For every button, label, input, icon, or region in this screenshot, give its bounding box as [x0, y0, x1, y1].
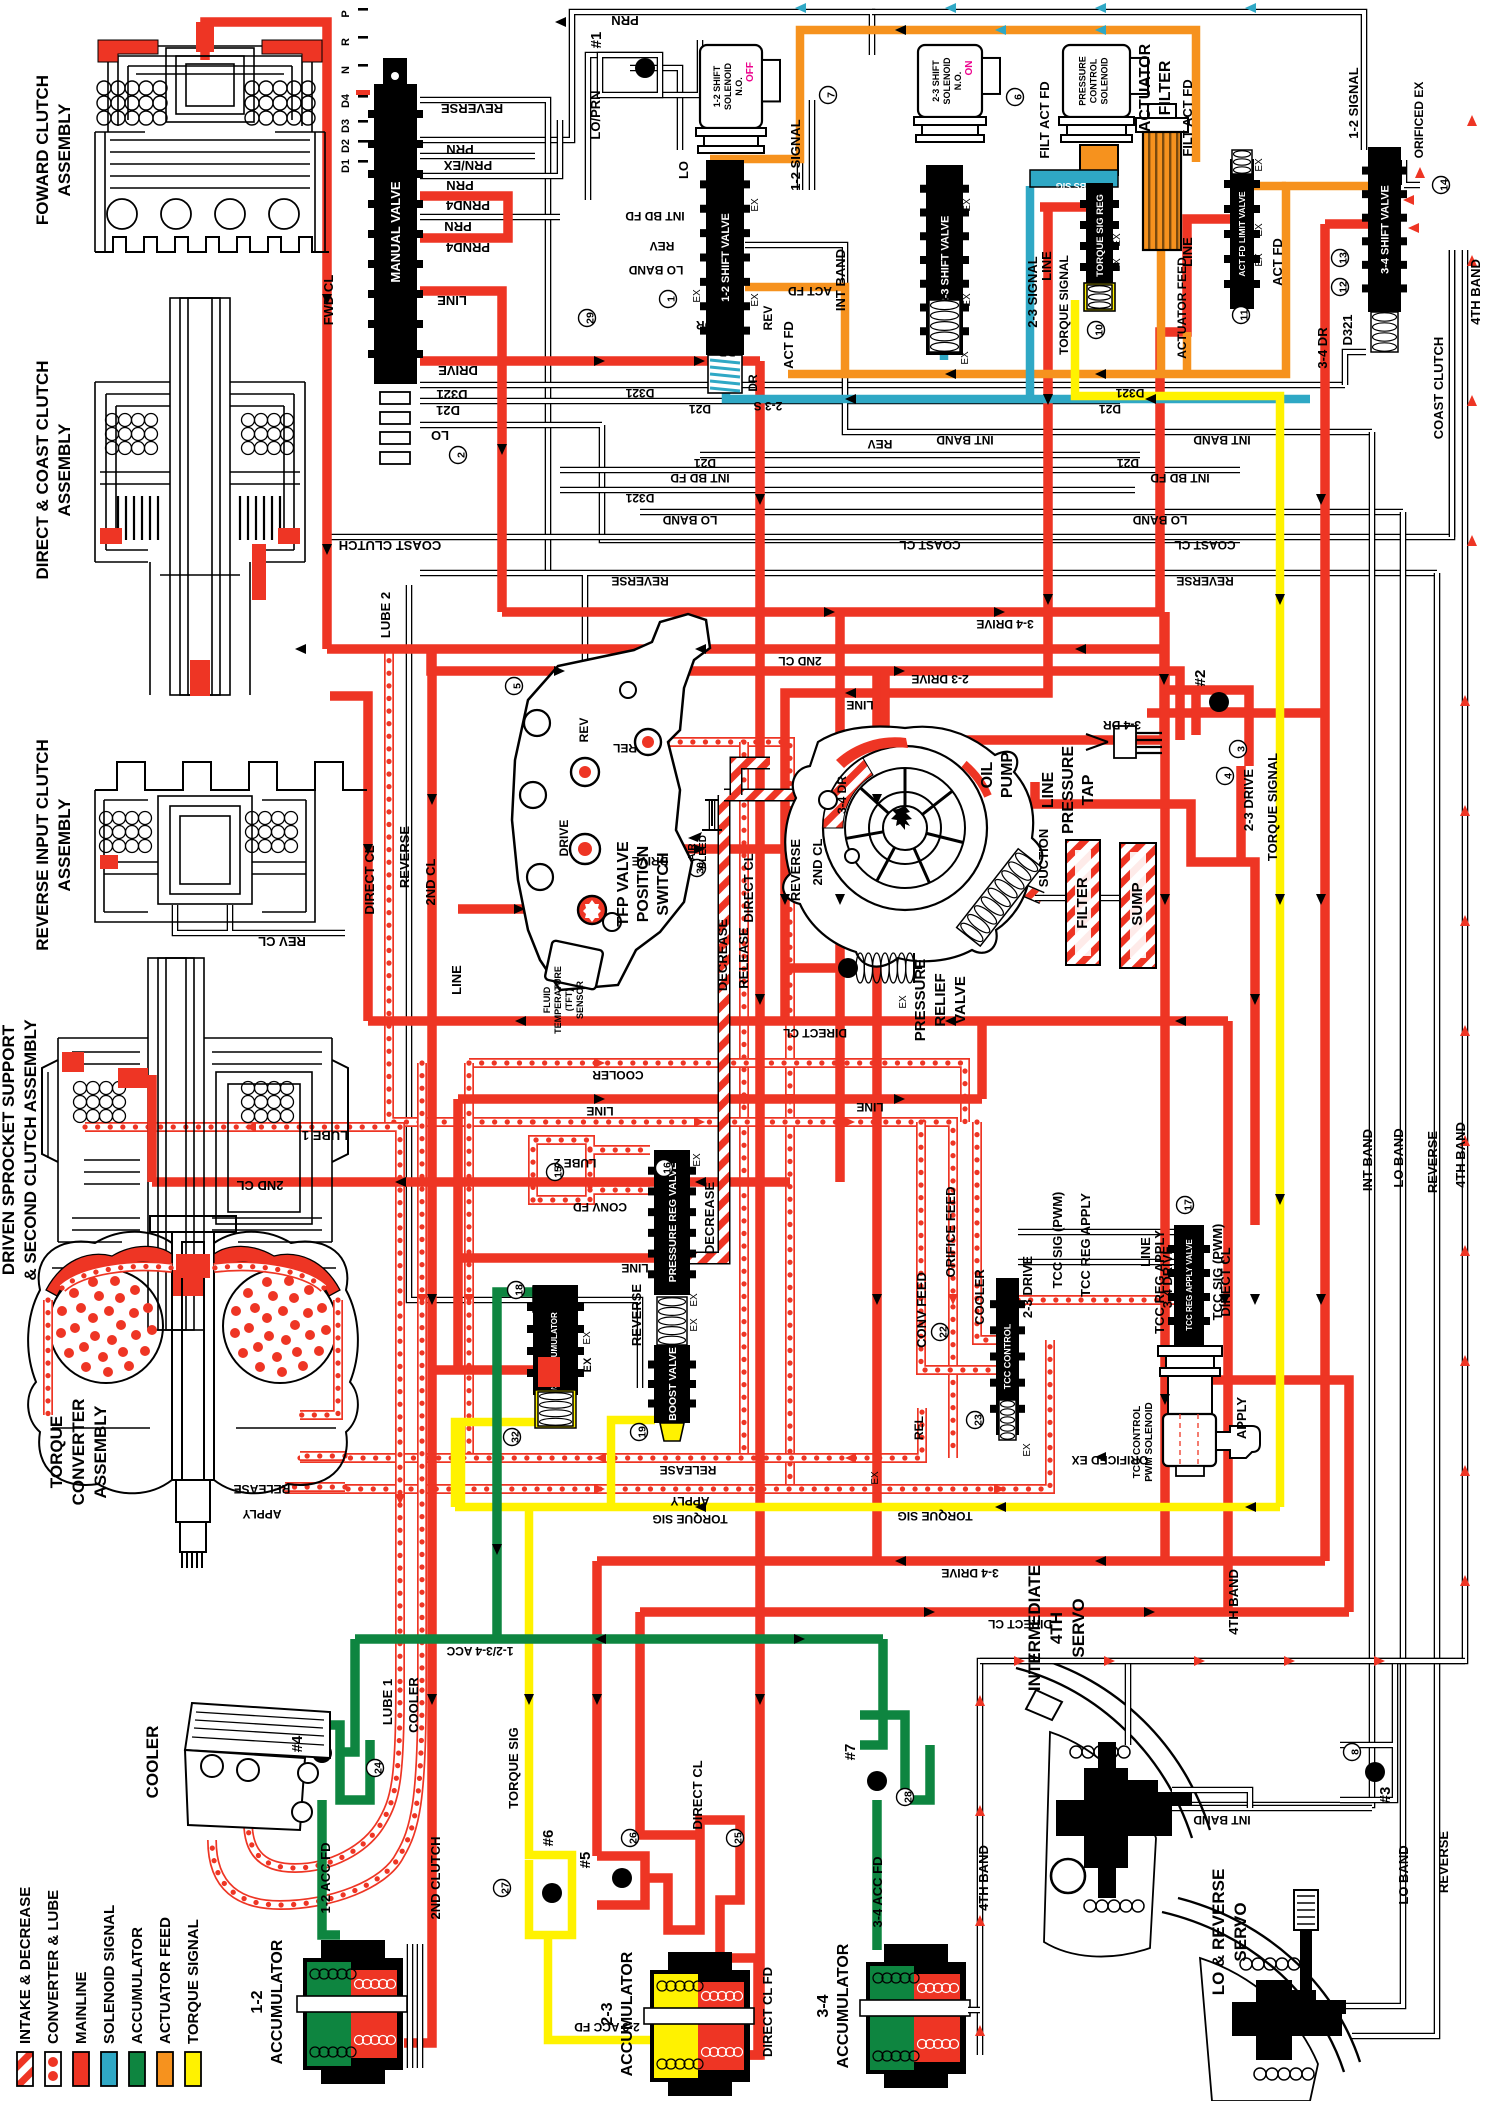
svg-text:3-4 DR: 3-4 DR	[1103, 718, 1141, 732]
wire INT BD FD channel	[560, 467, 1240, 474]
svg-text:16: 16	[662, 1162, 674, 1174]
wire cooler S loop outer	[212, 1690, 422, 1905]
checkball #5	[612, 1868, 632, 1888]
svg-text:RELEASE: RELEASE	[234, 1482, 291, 1496]
svg-text:1-2: 1-2	[249, 1990, 266, 2013]
TFP REL port	[635, 729, 661, 755]
svg-text:TFP VALVE: TFP VALVE	[615, 841, 632, 927]
wire LO long channel	[420, 425, 1240, 540]
wire 1-2 signal top channel	[872, 12, 1364, 150]
wire 3-4 shift valve feed	[1325, 219, 1368, 229]
wire accumulator green bus	[355, 1634, 883, 1644]
cooler assembly	[185, 1703, 330, 1830]
wire LO/PRN vertical channel	[588, 55, 640, 200]
wire D21 channel	[420, 398, 1120, 405]
svg-text:REV: REV	[577, 718, 591, 743]
wire orange 1-2 valve branch	[745, 287, 845, 374]
svg-text:DR: DR	[718, 345, 736, 359]
svg-text:2ND CLUTCH: 2ND CLUTCH	[428, 1836, 443, 1919]
svg-text:D21: D21	[1099, 402, 1121, 416]
svg-text:SUCTION: SUCTION	[1036, 829, 1051, 888]
wire 2-3 valve bottom blue	[940, 330, 949, 360]
svg-text:DIRECT CL: DIRECT CL	[1218, 1247, 1233, 1316]
wire INT BAND servo channel	[1150, 1805, 1372, 1812]
wire suction to filter hatched	[1000, 880, 1042, 898]
svg-text:2-3 DRIVE: 2-3 DRIVE	[911, 672, 968, 686]
wire DIRECT CL bottom bus	[640, 1607, 1349, 1617]
line pressure tap bolt	[1086, 726, 1162, 758]
intermediate 4th servo	[1016, 1656, 1210, 1957]
node circled 19	[631, 1424, 649, 1441]
wire dotted top bus to TCC loop	[533, 1122, 953, 1458]
svg-text:D2: D2	[340, 139, 352, 153]
svg-text:TORQUE SIGNAL: TORQUE SIGNAL	[1265, 753, 1280, 861]
checkball #7	[867, 1771, 887, 1791]
svg-text:D4: D4	[340, 93, 352, 108]
svg-text:RELEASE: RELEASE	[736, 927, 751, 989]
svg-text:DR: DR	[746, 374, 760, 392]
svg-text:2ND CL: 2ND CL	[778, 654, 821, 668]
node circled 25	[727, 1830, 745, 1847]
svg-text:FILT ACT FD: FILT ACT FD	[1180, 79, 1195, 156]
svg-text:INTAKE & DECREASE: INTAKE & DECREASE	[17, 1887, 34, 2044]
svg-text:COOLER: COOLER	[592, 1068, 644, 1082]
svg-text:LINE: LINE	[1040, 771, 1057, 808]
svg-text:7: 7	[826, 92, 838, 98]
wire #6 yellow drop	[529, 1507, 660, 2040]
svg-text:2-3 ACC FD: 2-3 ACC FD	[574, 2020, 640, 2034]
svg-text:2-3 S: 2-3 S	[754, 399, 783, 413]
svg-text:EX: EX	[962, 198, 973, 212]
svg-text:6: 6	[1013, 94, 1025, 100]
right edge red arrows top	[1467, 115, 1477, 126]
svg-text:5: 5	[512, 683, 524, 689]
checkball #4	[312, 1743, 332, 1763]
wire TC apply dotted stub	[300, 1451, 345, 1461]
TFP REV port	[571, 758, 599, 786]
svg-text:D21: D21	[436, 403, 460, 418]
wire #7 green cluster	[860, 1639, 930, 1950]
wire orange act fd limit valve	[1253, 182, 1286, 191]
svg-text:PRND4: PRND4	[445, 240, 490, 255]
wire 1-2/3-4 accumulator yellow drain	[457, 1422, 466, 1507]
wire LINE bus upper	[785, 207, 1048, 1021]
node circled 17	[1177, 1197, 1195, 1214]
wire RELEASE dotted bus	[300, 1408, 922, 1458]
svg-text:DIRECT & COAST CLUTCH: DIRECT & COAST CLUTCH	[33, 360, 52, 579]
svg-text:PRN/EX: PRN/EX	[443, 158, 492, 173]
svg-text:ACT FD LIMIT VALVE: ACT FD LIMIT VALVE	[1237, 191, 1247, 276]
oil pump red accents	[836, 737, 908, 768]
svg-text:PRESSURE: PRESSURE	[1077, 56, 1087, 106]
wire pump to oil hatched elbow	[736, 763, 770, 795]
svg-text:D21: D21	[694, 456, 716, 470]
solenoid pressure control	[1063, 45, 1130, 117]
svg-text:INT BAND: INT BAND	[1193, 433, 1251, 447]
svg-text:TAP: TAP	[1080, 774, 1097, 805]
wire DRIVE line from TFP	[579, 844, 805, 854]
svg-text:23: 23	[973, 1414, 985, 1426]
legend actuator feed	[157, 2052, 173, 2086]
svg-text:14: 14	[1439, 179, 1451, 191]
oil pump assembly	[783, 727, 1042, 967]
svg-text:LINE: LINE	[586, 1104, 613, 1118]
wire FWD CL red line	[205, 22, 327, 649]
wire main vertical x760	[748, 361, 760, 2055]
svg-text:D321: D321	[625, 491, 654, 505]
wire TC release dotted stub	[285, 1482, 345, 1492]
svg-text:4TH BAND: 4TH BAND	[1468, 259, 1483, 325]
svg-text:ASSEMBLY: ASSEMBLY	[55, 103, 74, 197]
svg-text:BLEED: BLEED	[698, 835, 709, 869]
checkball #1	[600, 55, 660, 95]
wire orange filter down	[1157, 250, 1166, 374]
svg-text:2: 2	[456, 452, 468, 458]
svg-text:ACTUATOR FEED: ACTUATOR FEED	[157, 1917, 174, 2044]
svg-text:CONVERTER & LUBE: CONVERTER & LUBE	[45, 1890, 62, 2044]
wire act fd limit line feed	[1160, 219, 1236, 612]
wire orificed ex channel	[1404, 160, 1420, 185]
wire 2ND CL bus	[327, 644, 1164, 654]
svg-text:SERVO: SERVO	[1069, 1598, 1088, 1657]
svg-text:EX: EX	[750, 198, 761, 212]
svg-text:1-2 ACC FD: 1-2 ACC FD	[318, 1842, 333, 1913]
valve 1-2 shift	[706, 160, 744, 355]
accumulator 1-2	[303, 1940, 403, 2084]
torque converter red shell	[46, 1246, 172, 1296]
node circled 32	[504, 1429, 522, 1446]
wire orange top loop	[710, 30, 1196, 162]
svg-text:ORIFICED EX: ORIFICED EX	[1072, 1453, 1149, 1467]
svg-text:TCC CONTROL: TCC CONTROL	[1003, 1323, 1013, 1389]
svg-text:25: 25	[733, 1832, 745, 1844]
svg-text:EX: EX	[898, 995, 909, 1009]
direct clutch red accents	[100, 528, 122, 544]
svg-text:3-4: 3-4	[815, 1994, 832, 2017]
wire APPLY dotted bus	[285, 1340, 1050, 1489]
air bleed symbol	[702, 800, 722, 830]
TFT sensor body	[544, 940, 603, 990]
wire COOLER dotted upper bus	[469, 1063, 965, 1122]
svg-text:8: 8	[1350, 1749, 1362, 1755]
valve 1-2/3-4 accumulator	[533, 1286, 556, 1312]
svg-text:REV: REV	[868, 437, 893, 451]
svg-text:CONV FD: CONV FD	[573, 1200, 627, 1214]
filter hatched block	[1066, 840, 1100, 965]
node circled 4	[1217, 768, 1235, 785]
svg-text:TORQUE SIG: TORQUE SIG	[652, 1512, 727, 1526]
torque converter dotted channels	[62, 1266, 172, 1288]
node circled 29	[579, 310, 597, 327]
svg-text:3-4 SHIFT VALVE: 3-4 SHIFT VALVE	[1379, 185, 1391, 274]
wire suction channel filter-sump	[1035, 895, 1135, 902]
svg-text:LINE: LINE	[846, 698, 873, 712]
svg-text:1: 1	[666, 296, 678, 302]
valve boost	[654, 1345, 690, 1423]
torque converter lube dots	[90, 1331, 100, 1341]
svg-text:TORQUE SIG: TORQUE SIG	[897, 1509, 972, 1523]
svg-text:17: 17	[1183, 1199, 1195, 1211]
wire DECREASE hatched vertical	[660, 795, 724, 1258]
wire DIRECT CL right vertical	[1223, 1021, 1233, 1612]
node circled 14	[1433, 177, 1451, 194]
checkball #6	[542, 1883, 562, 1903]
wire DIRECT CL bus	[368, 1016, 1228, 1026]
wire pump inlet red	[805, 800, 840, 849]
wire RELEASE dotted vertical	[739, 742, 749, 1458]
svg-text:PWM SOLENOID: PWM SOLENOID	[1144, 1402, 1155, 1481]
svg-text:LO BAND: LO BAND	[1391, 1128, 1406, 1187]
svg-text:EX: EX	[692, 289, 703, 303]
svg-text:3-4 DRIVE: 3-4 DRIVE	[1160, 1246, 1175, 1308]
svg-text:3: 3	[1236, 746, 1248, 752]
svg-text:APPLY: APPLY	[243, 1507, 282, 1521]
wire direct cl drop	[640, 1612, 700, 1835]
node circled 6	[1007, 89, 1025, 106]
svg-text:2-3 DRIVE: 2-3 DRIVE	[1020, 1256, 1035, 1318]
svg-text:OFF: OFF	[745, 62, 756, 82]
svg-text:INT BAND: INT BAND	[1193, 1813, 1251, 1827]
wire suction hatched from pump	[724, 789, 815, 802]
svg-text:& SECOND CLUTCH ASSEMBLY: & SECOND CLUTCH ASSEMBLY	[21, 1019, 40, 1281]
svg-text:29: 29	[585, 312, 597, 324]
wire orange act fd limit top	[1183, 332, 1192, 374]
wire air bleed channel	[709, 800, 716, 830]
wire REVERSE vertical to boost valve	[409, 585, 640, 1388]
wire 2-3 S bus	[726, 355, 1310, 399]
svg-text:10: 10	[1094, 324, 1106, 336]
valve TCC control	[996, 1278, 1019, 1435]
wire PRND4 jog	[420, 196, 508, 238]
wire REVERSE right vertical	[1434, 573, 1441, 1980]
node circled 28	[897, 1789, 915, 1806]
svg-text:EX: EX	[1112, 233, 1123, 247]
wire 3-4 DR long vertical	[1320, 224, 1330, 1561]
svg-text:COAST CL: COAST CL	[899, 538, 960, 552]
svg-text:LUBE 1: LUBE 1	[302, 1128, 348, 1143]
svg-text:D1: D1	[340, 159, 352, 173]
svg-text:TORQUE SIG REG: TORQUE SIG REG	[1095, 194, 1106, 277]
wire PRN/EX port channel	[420, 153, 535, 160]
svg-text:CONVERTER: CONVERTER	[69, 1399, 88, 1506]
svg-text:FLUID: FLUID	[542, 986, 552, 1013]
wire pump outlet path	[1035, 782, 1255, 1225]
sump hatched block	[1120, 843, 1156, 968]
svg-text:REL: REL	[912, 1416, 926, 1440]
svg-text:4: 4	[1223, 773, 1235, 779]
svg-text:INT BAND: INT BAND	[1360, 1129, 1375, 1191]
svg-text:REVERSE: REVERSE	[629, 1284, 644, 1346]
svg-text:2-3 DRIVE: 2-3 DRIVE	[1241, 769, 1256, 831]
legend accumulator	[129, 2052, 145, 2086]
svg-text:DIRECT CL: DIRECT CL	[690, 1760, 705, 1829]
svg-text:13: 13	[1338, 252, 1350, 264]
solenoid 1-2 shift	[700, 45, 762, 128]
svg-text:1-2 SHIFT VALVE: 1-2 SHIFT VALVE	[720, 213, 732, 302]
svg-text:12: 12	[1338, 281, 1350, 293]
node circled 15	[547, 1164, 565, 1181]
svg-text:INT BAND: INT BAND	[833, 249, 848, 311]
svg-text:LO BAND: LO BAND	[1396, 1845, 1411, 1904]
svg-text:AIR: AIR	[687, 843, 698, 861]
svg-text:19: 19	[637, 1426, 649, 1438]
wire 3-4 DR to shift valve	[1147, 708, 1325, 718]
svg-text:DIRECT CL FD: DIRECT CL FD	[760, 1967, 775, 2057]
svg-text:VALVE: VALVE	[952, 976, 969, 1024]
4th band red arrows	[1460, 695, 1470, 706]
actuator filter component	[1136, 118, 1188, 132]
svg-text:SOLENOID: SOLENOID	[723, 63, 733, 111]
svg-text:ACT FD: ACT FD	[1270, 238, 1285, 286]
svg-text:CONV FEED: CONV FEED	[914, 1272, 929, 1348]
svg-text:1-2/3-4 ACC: 1-2/3-4 ACC	[446, 1644, 513, 1658]
driven sprocket support and second clutch assembly	[42, 958, 348, 1330]
wire TFP REV channel	[582, 575, 589, 695]
wire line pressure tap line	[885, 671, 1164, 740]
svg-text:SOLENOID: SOLENOID	[1100, 57, 1110, 105]
wire TCC reg apply to direct cl bus	[1204, 1380, 1349, 1612]
svg-text:#6: #6	[540, 1830, 557, 1847]
legend converter and lube	[45, 2052, 61, 2086]
svg-text:18: 18	[514, 1284, 526, 1296]
svg-text:PRN: PRN	[611, 13, 638, 28]
wire D321 channel	[420, 382, 1345, 389]
svg-text:D321: D321	[1115, 386, 1144, 400]
node circled 8	[1344, 1744, 1362, 1761]
node circled 16	[656, 1160, 674, 1177]
svg-text:26: 26	[628, 1832, 640, 1844]
TFP DRIVE port	[570, 834, 600, 864]
legend torque signal	[185, 2052, 201, 2086]
wire REVERSE long channel	[420, 570, 1437, 577]
svg-text:LUBE 2: LUBE 2	[553, 1156, 596, 1170]
svg-text:TORQUE SIG: TORQUE SIG	[506, 1727, 521, 1808]
node circled 3	[1230, 741, 1248, 758]
svg-text:INT BAND: INT BAND	[936, 433, 994, 447]
svg-text:COAST CLUTCH: COAST CLUTCH	[339, 538, 442, 553]
wire INT BAND right vertical	[1150, 432, 1372, 1805]
svg-text:TORQUE SIGNAL: TORQUE SIGNAL	[1057, 255, 1071, 355]
wire DRIVE bus	[420, 356, 760, 366]
svg-text:LO BAND: LO BAND	[662, 513, 717, 527]
svg-text:APPLY: APPLY	[1234, 1397, 1249, 1439]
wire REV CL channel	[175, 905, 345, 933]
valve act fd limit	[1230, 159, 1254, 309]
svg-text:2-3 DR: 2-3 DR	[696, 318, 734, 332]
svg-text:D21: D21	[689, 402, 711, 416]
svg-text:REVERSE: REVERSE	[1176, 574, 1233, 588]
svg-text:PRN: PRN	[444, 219, 471, 234]
wire INT BAND channel	[745, 245, 1372, 432]
svg-text:PRESSURE REG VALVE: PRESSURE REG VALVE	[667, 1163, 679, 1283]
wire LO BAND right vertical	[1400, 512, 1407, 1950]
wire REV stub	[582, 700, 589, 772]
svg-text:DIRECT CL: DIRECT CL	[741, 853, 756, 922]
svg-text:ACCUMULATOR: ACCUMULATOR	[835, 1943, 852, 2068]
wire D321 to 3-4 valve	[1345, 352, 1366, 385]
svg-text:MAINLINE: MAINLINE	[73, 1972, 90, 2045]
svg-text:LINE: LINE	[1138, 1237, 1153, 1267]
svg-text:LO/PRN: LO/PRN	[588, 90, 603, 139]
wire int servo channels	[980, 1661, 1465, 1745]
wire PRN port channel	[420, 120, 560, 176]
flow arrows	[555, 17, 566, 27]
svg-text:TORQUE: TORQUE	[47, 1416, 66, 1488]
svg-text:EX: EX	[692, 1153, 703, 1167]
wire TFP feed line	[458, 904, 580, 914]
wire 2ND CLUTCH vertical	[404, 649, 432, 2043]
wire 4TH BAND right vertical	[980, 250, 1465, 2055]
svg-text:TCC REG APPLY: TCC REG APPLY	[1078, 1193, 1093, 1297]
node circled 18	[508, 1282, 526, 1299]
svg-text:3-4 DRIVE: 3-4 DRIVE	[941, 1566, 998, 1580]
svg-text:EX: EX	[689, 1293, 700, 1307]
svg-text:REL: REL	[613, 741, 637, 755]
svg-text:3-4 ACC FD: 3-4 ACC FD	[870, 1856, 885, 1927]
svg-text:N.O.: N.O.	[953, 72, 963, 91]
svg-text:2ND CL: 2ND CL	[810, 838, 825, 885]
svg-text:SENSOR: SENSOR	[575, 980, 585, 1019]
svg-text:2ND CL: 2ND CL	[423, 858, 438, 905]
svg-text:ASSEMBLY: ASSEMBLY	[91, 1405, 110, 1499]
svg-text:LO BAND: LO BAND	[628, 263, 683, 277]
svg-text:FOWARD CLUTCH: FOWARD CLUTCH	[33, 75, 52, 225]
wire COAST CL channel	[330, 250, 1452, 537]
wire PRN top channel	[420, 12, 872, 140]
svg-text:REVERSE: REVERSE	[1425, 1131, 1440, 1193]
svg-text:LO & REVERSE: LO & REVERSE	[1209, 1869, 1228, 1996]
legend intake and decrease	[17, 2052, 33, 2086]
svg-text:1-2 SIGNAL: 1-2 SIGNAL	[1346, 67, 1361, 139]
svg-text:EX: EX	[962, 293, 973, 307]
wire 3-4 drive bottom bus	[597, 1556, 1325, 1566]
torque converter assembly	[28, 1216, 358, 1568]
svg-text:11: 11	[1239, 309, 1251, 320]
svg-text:27: 27	[500, 1882, 512, 1894]
wire #1 checkball pocket	[640, 40, 700, 95]
svg-text:LO: LO	[676, 161, 691, 179]
svg-text:#1: #1	[588, 32, 605, 49]
checkball #3	[1365, 1762, 1385, 1782]
svg-text:4TH BAND: 4TH BAND	[976, 1845, 991, 1911]
svg-text:2-3 SIGNAL: 2-3 SIGNAL	[1025, 256, 1040, 328]
svg-text:LUBE 1: LUBE 1	[380, 1679, 395, 1725]
lo and reverse servo	[1162, 1898, 1360, 2101]
svg-text:COOLER: COOLER	[406, 1677, 421, 1733]
node circled 23	[967, 1412, 985, 1429]
oil pump spring	[957, 849, 1042, 946]
svg-text:REV CL: REV CL	[258, 934, 306, 949]
wire 1-2 accumulator channels	[410, 1944, 420, 2068]
svg-text:#5: #5	[577, 1852, 594, 1869]
svg-text:2ND CL: 2ND CL	[236, 1178, 283, 1193]
svg-text:DIRECT CL: DIRECT CL	[988, 1617, 1052, 1631]
node circled 27	[494, 1880, 512, 1897]
svg-text:TCC REG APPLY VALVE: TCC REG APPLY VALVE	[1185, 1239, 1194, 1331]
node circled 24	[367, 1760, 385, 1777]
wire TCC thin channels	[1018, 1232, 1174, 1262]
svg-text:TEMPERATURE: TEMPERATURE	[553, 966, 563, 1034]
svg-text:ORIFICE FEED: ORIFICE FEED	[943, 1186, 958, 1277]
svg-text:24: 24	[373, 1762, 385, 1774]
svg-text:FWD CL: FWD CL	[321, 275, 336, 326]
TFT sensor port	[578, 896, 606, 924]
direct and coast clutch assembly	[95, 298, 305, 695]
svg-text:RELEASE: RELEASE	[660, 1463, 717, 1477]
svg-text:P: P	[340, 10, 352, 17]
svg-text:ACCUMULATOR: ACCUMULATOR	[129, 1927, 146, 2044]
svg-text:FILT ACT FD: FILT ACT FD	[1037, 81, 1052, 158]
